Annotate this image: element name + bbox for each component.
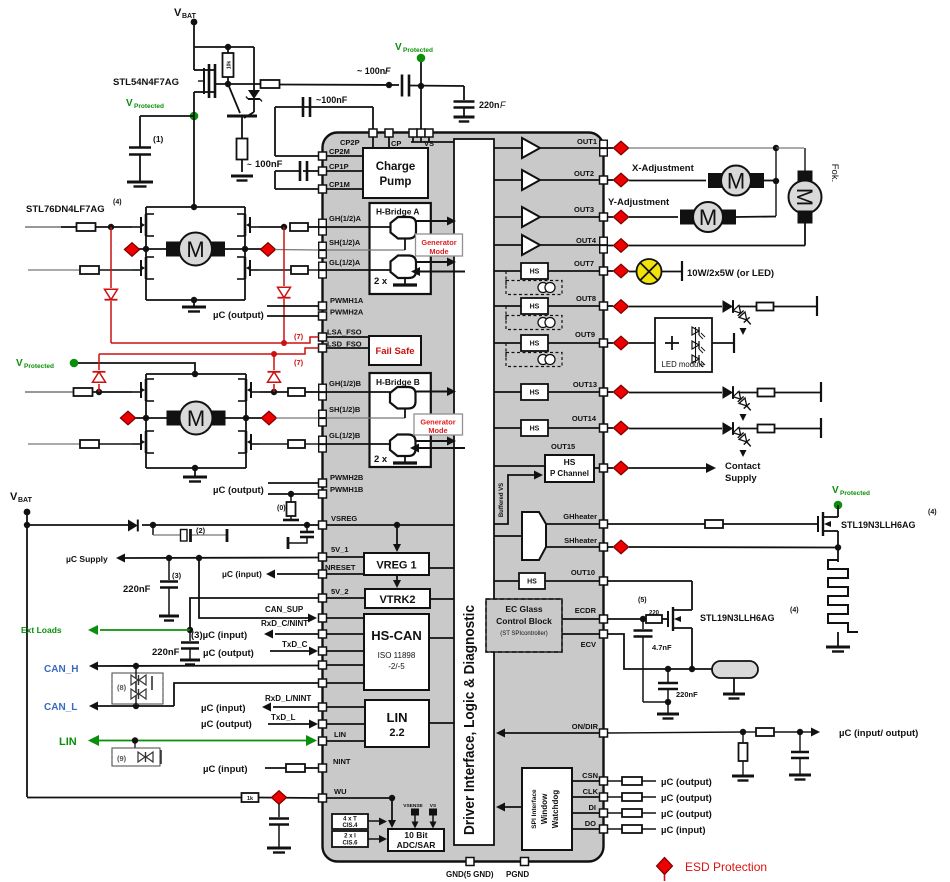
svg-text:HS: HS bbox=[530, 269, 540, 276]
svg-text:PWMH1B: PWMH1B bbox=[330, 485, 364, 494]
capacitor at VSREG pin bbox=[306, 525, 308, 531]
resistor gate A high-right bbox=[290, 223, 308, 231]
bridge A left vertical bbox=[145, 207, 147, 300]
wire SH(1/2)B sense to pin bbox=[276, 417, 319, 419]
CAN transient suppressor box (dashed) bbox=[112, 673, 163, 704]
bridge B right vertical bbox=[245, 374, 247, 468]
svg-text:Y-Adjustment: Y-Adjustment bbox=[608, 197, 670, 208]
lamp 10W (yellow) bbox=[637, 259, 662, 284]
MOSFET A low-left bbox=[145, 257, 148, 279]
wire VTRK2 to strip bbox=[430, 598, 454, 600]
svg-text:SH(1/2)B: SH(1/2)B bbox=[329, 405, 361, 414]
wire PWMH2A uC line bbox=[267, 315, 319, 317]
wire SH(1/2)A sense to pin bbox=[275, 249, 319, 252]
wire RxD_C uC input bbox=[275, 633, 319, 635]
resistor OUT13 bbox=[758, 389, 775, 397]
pin TxD_C bbox=[319, 647, 327, 655]
block HS-CAN bbox=[364, 614, 429, 690]
motor Fok (vertical) bbox=[804, 148, 806, 171]
arrow 4xT to ADC bbox=[368, 820, 381, 822]
svg-text:Fok.: Fok. bbox=[829, 164, 840, 182]
wire GH(1/2)B gate left bbox=[25, 391, 73, 393]
buffered VS feed line bbox=[494, 475, 536, 524]
wire OUT3 to Y motor bbox=[608, 216, 614, 218]
svg-text:Mode: Mode bbox=[428, 426, 447, 435]
resistor NINT bbox=[286, 764, 305, 772]
triangle buffer OUT2 bbox=[522, 170, 540, 190]
svg-text:OUT9: OUT9 bbox=[575, 330, 595, 339]
svg-text:OUT13: OUT13 bbox=[573, 380, 597, 389]
HS switch OUT14 bbox=[521, 420, 548, 436]
pin pair GH(1/2)B bbox=[319, 384, 327, 392]
svg-text:ESD Protection: ESD Protection bbox=[685, 860, 767, 874]
svg-text:PWMH2A: PWMH2A bbox=[330, 308, 364, 317]
wire strip to heater driver bbox=[494, 535, 522, 537]
MOSFET EC STL19N3LLH6AG bbox=[667, 611, 669, 627]
ESD diamond OUT3 bbox=[613, 210, 628, 224]
motor A bbox=[167, 242, 180, 256]
svg-text:Ext Loads: Ext Loads bbox=[21, 625, 62, 635]
ground for gate driver A2 bbox=[404, 278, 406, 284]
bridge B top rail bbox=[146, 373, 246, 375]
ESD diamond OUT4 bbox=[613, 239, 628, 253]
wire HS-CAN to strip bbox=[429, 637, 454, 639]
svg-text:Supply: Supply bbox=[725, 473, 757, 484]
wire CP1P to charge pump bbox=[327, 170, 364, 172]
arrow Contact Supply bbox=[608, 467, 614, 469]
block VTRK2 bbox=[365, 589, 430, 608]
svg-text:OUT1: OUT1 bbox=[577, 137, 597, 146]
svg-text:HS: HS bbox=[530, 304, 540, 311]
svg-text:µC (output): µC (output) bbox=[661, 809, 712, 820]
wire SH(1/2)A inside bbox=[327, 249, 406, 251]
wire WU from VBAT rail bbox=[27, 797, 242, 799]
svg-text:OUT4: OUT4 bbox=[576, 236, 597, 245]
svg-text:10k: 10k bbox=[227, 61, 233, 70]
resistor 1k WU bbox=[242, 793, 259, 802]
svg-text:TxD_L: TxD_L bbox=[271, 713, 296, 722]
resistor bias vertical bbox=[223, 53, 234, 77]
wire ECDR to gate bbox=[608, 618, 644, 620]
wire strip to OUT1 buffer bbox=[494, 147, 522, 149]
svg-text:VS: VS bbox=[430, 803, 437, 809]
pin pair SH(1/2)A bbox=[319, 242, 327, 250]
ground EC glass bbox=[723, 693, 745, 696]
red fail-safe line LSA bbox=[111, 342, 284, 344]
pin PWMH1A bbox=[319, 302, 327, 310]
pin PWMH2B bbox=[319, 479, 327, 487]
svg-text:(4): (4) bbox=[790, 607, 799, 614]
wire strip to HS OUT10 bbox=[494, 580, 519, 582]
svg-text:µC (output): µC (output) bbox=[213, 485, 264, 496]
svg-text:V: V bbox=[10, 491, 18, 503]
flying cap 100nF #1 bbox=[299, 161, 302, 181]
svg-text:M: M bbox=[727, 169, 745, 194]
wire PWMH1B uC line bbox=[268, 493, 319, 495]
svg-text:Charge: Charge bbox=[376, 161, 416, 173]
wire strip to OUT2 buffer bbox=[494, 179, 522, 181]
block H-Bridge B bbox=[370, 373, 431, 467]
pin WU bbox=[319, 794, 327, 802]
svg-text:µC (output): µC (output) bbox=[201, 719, 252, 730]
zener diode at bias bbox=[253, 47, 255, 90]
arrow driver B1 to logic strip bbox=[415, 391, 450, 393]
BJT fail-safe transistor bbox=[228, 84, 240, 113]
zener pair OUT8 bbox=[733, 305, 754, 327]
zener pair OUT14 bbox=[733, 427, 754, 449]
svg-text:EC Glass: EC Glass bbox=[505, 604, 543, 614]
svg-text:(4): (4) bbox=[928, 509, 937, 516]
resistor OUT8 bbox=[757, 303, 774, 311]
wire LIN pin to LIN block bbox=[327, 740, 366, 742]
wire GHheater to gate bbox=[608, 523, 706, 525]
svg-text:µC Supply: µC Supply bbox=[66, 554, 108, 564]
svg-text:SHheater: SHheater bbox=[564, 536, 597, 545]
wire LED module to terminator bbox=[712, 342, 734, 344]
pin DI bbox=[600, 809, 608, 817]
HS switch OUT13 bbox=[521, 384, 548, 400]
series capacitor 100nF (VS) bbox=[401, 75, 404, 97]
pin CP1M bbox=[319, 185, 327, 193]
arrow Ext Loads (green) bbox=[100, 629, 190, 631]
MOSFET A high-right bbox=[244, 214, 247, 236]
resistor gate A low-right bbox=[291, 266, 308, 274]
wire RxD_L pin to LIN block bbox=[327, 706, 366, 708]
svg-text:Contact: Contact bbox=[725, 461, 761, 472]
svg-text:(3): (3) bbox=[172, 571, 182, 580]
svg-text:CAN_L: CAN_L bbox=[44, 702, 77, 713]
box LED module bbox=[655, 318, 712, 372]
wire VSREG supply line bbox=[27, 524, 130, 526]
wire GL(1/2)B pin to driver bbox=[327, 443, 392, 445]
EC glass element (oval) bbox=[712, 661, 758, 678]
svg-text:µC (input): µC (input) bbox=[203, 764, 248, 775]
node VProtected left bbox=[190, 112, 199, 121]
svg-text:(5): (5) bbox=[638, 597, 647, 604]
wire 5V_1 to VREG1 bbox=[327, 556, 365, 558]
svg-text:OUT14: OUT14 bbox=[572, 414, 597, 423]
wire VBAT left rail bbox=[26, 512, 28, 797]
wire VProtected to filter cap (1) bbox=[140, 115, 194, 117]
pin OUT7 bbox=[600, 267, 608, 275]
pin OUT3 bbox=[600, 213, 608, 221]
red fail-safe vertical B-left bbox=[98, 384, 100, 392]
arrow WU to ADC bbox=[391, 798, 393, 822]
block Fail Safe bbox=[369, 336, 421, 365]
svg-text:Protected: Protected bbox=[134, 103, 164, 110]
pin CLK bbox=[600, 793, 608, 801]
pin OUT9 bbox=[600, 339, 608, 347]
red fail-safe line LSD bbox=[99, 353, 274, 355]
wire strip to HS OUT8 bbox=[494, 305, 521, 307]
svg-text:~: ~ bbox=[247, 160, 252, 169]
pin RxD_L bbox=[319, 703, 327, 711]
svg-text:CIS.4: CIS.4 bbox=[342, 823, 358, 829]
svg-text:RxD_C/NINT: RxD_C/NINT bbox=[261, 619, 308, 628]
wire SHheater bbox=[608, 546, 614, 548]
svg-text:CP2P: CP2P bbox=[340, 138, 360, 147]
wire PWMH1A uC line bbox=[267, 305, 319, 307]
MOSFET B high-right bbox=[245, 379, 248, 401]
terminator OUT8 bbox=[816, 296, 818, 316]
wire CAN_SUP pin to HS-CAN bbox=[327, 617, 365, 619]
svg-text:OUT7: OUT7 bbox=[574, 259, 594, 268]
wire strip to HS P-Channel bbox=[494, 465, 545, 467]
pin OUT15 bbox=[600, 464, 608, 472]
svg-text:F: F bbox=[385, 66, 391, 76]
wire OUT2 buffer to pin bbox=[540, 179, 600, 181]
svg-text:µC (output): µC (output) bbox=[661, 793, 712, 804]
svg-text:HS: HS bbox=[527, 579, 537, 586]
wire OUT8 chain bbox=[608, 305, 614, 307]
pin pair GL(1/2)B bbox=[319, 436, 327, 444]
svg-text:SPI Interface: SPI Interface bbox=[531, 789, 538, 829]
pin OUT2 bbox=[600, 176, 608, 184]
pin ON/DIR bbox=[600, 729, 608, 737]
wire TxD_L pin to LIN block bbox=[327, 723, 366, 725]
ground bridge A bbox=[193, 300, 195, 307]
wire OUT9 to LED module bbox=[608, 342, 614, 344]
svg-text:LED module: LED module bbox=[662, 360, 705, 369]
block 2xI CIS.6 bbox=[332, 831, 368, 847]
wire motor A right bbox=[224, 248, 245, 250]
wire VBAT branch to bias resistor bbox=[194, 46, 254, 48]
pin ECDR bbox=[600, 615, 608, 623]
wire HS OUT7 to pin bbox=[548, 270, 600, 272]
wire HS OUT13 to pin bbox=[548, 391, 600, 393]
ESD diamond OUT9 bbox=[613, 336, 628, 350]
ESD diamond OUT7 bbox=[613, 264, 628, 278]
svg-text:µC (output): µC (output) bbox=[203, 648, 254, 659]
wire WU inside IC bbox=[327, 797, 393, 799]
capacitor (1) bbox=[129, 146, 151, 149]
svg-text:Protected: Protected bbox=[24, 363, 54, 370]
svg-text:TxD_C: TxD_C bbox=[282, 640, 308, 649]
wire LSA_FSO to Fail Safe bbox=[327, 336, 370, 338]
wire GHheater bbox=[546, 523, 600, 525]
wire TxD_C uC output bbox=[270, 650, 312, 652]
wire VREG1 to strip bbox=[429, 567, 454, 569]
svg-text:M: M bbox=[792, 188, 817, 206]
capacitor 220nF (5V1) bbox=[168, 558, 170, 580]
svg-text:(8): (8) bbox=[117, 683, 127, 692]
svg-text:LIN: LIN bbox=[334, 730, 346, 739]
HS switch OUT8 bbox=[521, 298, 548, 314]
svg-text:CP1M: CP1M bbox=[329, 180, 350, 189]
red fail-safe vertical B-right bbox=[273, 384, 275, 392]
svg-text:NINT: NINT bbox=[333, 757, 351, 766]
pin OUT13 bbox=[600, 388, 608, 396]
svg-text:Generator: Generator bbox=[421, 238, 456, 247]
wire VBAT vertical bbox=[193, 22, 195, 70]
wire GH(1/2)A pin to driver bbox=[327, 226, 392, 228]
svg-text:1k: 1k bbox=[247, 796, 254, 802]
svg-text:GL(1/2)B: GL(1/2)B bbox=[329, 431, 361, 440]
svg-text:~100nF: ~100nF bbox=[316, 95, 348, 105]
wire NRESET to VREG1 bbox=[327, 573, 365, 575]
current source box OUT9 bbox=[505, 343, 507, 360]
flying cap 100nF #2 bbox=[302, 97, 305, 117]
wire OUT4 buffer to pin bbox=[540, 244, 600, 246]
resistor OUT14 bbox=[758, 425, 775, 433]
pin pair SH(1/2)B bbox=[319, 410, 327, 418]
pad VSENSE bbox=[412, 809, 419, 815]
resistor below BJT bbox=[237, 139, 248, 160]
svg-text:STL19N3LLH6AG: STL19N3LLH6AG bbox=[700, 613, 775, 623]
svg-text:CAN_H: CAN_H bbox=[44, 664, 78, 675]
MOSFET A high-left bbox=[145, 214, 148, 236]
ESD diamond SHheater bbox=[613, 540, 628, 554]
wire strip to HS OUT14 bbox=[494, 427, 521, 429]
svg-text:ECDR: ECDR bbox=[575, 606, 597, 615]
wire 5V_2 to VTRK2 bbox=[327, 597, 366, 599]
block VREG 1 bbox=[364, 553, 429, 575]
zener pair OUT13 bbox=[733, 391, 754, 413]
terminator OUT14 bbox=[820, 418, 822, 438]
svg-text:V: V bbox=[16, 358, 23, 369]
wire GH(1/2)B pin to driver bbox=[327, 391, 392, 393]
block 10 Bit ADC/SAR bbox=[388, 829, 444, 851]
svg-text:µC (input/ output): µC (input/ output) bbox=[839, 728, 918, 739]
svg-text:µC (output): µC (output) bbox=[213, 310, 264, 321]
arrow VS to ADC bbox=[432, 815, 434, 823]
svg-text:(7): (7) bbox=[294, 358, 304, 367]
svg-text:OUT10: OUT10 bbox=[571, 568, 595, 577]
svg-text:STL19N3LLH6AG: STL19N3LLH6AG bbox=[841, 520, 916, 530]
svg-text:(7): (7) bbox=[294, 332, 304, 341]
svg-text:2 x I: 2 x I bbox=[344, 834, 356, 840]
svg-text:WU: WU bbox=[334, 787, 347, 796]
wire strip to HS OUT13 bbox=[494, 391, 521, 393]
node VBAT top bbox=[191, 19, 198, 26]
svg-text:ON/DIR: ON/DIR bbox=[572, 722, 599, 731]
svg-text:220nF: 220nF bbox=[152, 647, 180, 658]
wire gate A high-right to pin bbox=[259, 226, 284, 228]
svg-text:PWMH2B: PWMH2B bbox=[330, 473, 364, 482]
resistor gate A high-left bbox=[77, 223, 96, 231]
wire VBAT rail down to bridge A bbox=[193, 92, 195, 207]
resistor gate B high-left bbox=[74, 388, 93, 396]
ESD diamond bridge A left bbox=[126, 248, 146, 250]
pin GHheater bbox=[600, 520, 608, 528]
arrow ON/DIR into strip bbox=[500, 732, 600, 734]
svg-text:-2/-5: -2/-5 bbox=[388, 662, 405, 671]
wire DI to SPI bbox=[572, 812, 600, 814]
svg-text:~ 100n: ~ 100n bbox=[357, 66, 385, 76]
triangle buffer OUT3 bbox=[522, 207, 540, 227]
wire motor A left bbox=[146, 248, 167, 250]
svg-text:LSA_FSO: LSA_FSO bbox=[327, 328, 362, 337]
svg-text:10 Bit: 10 Bit bbox=[404, 830, 427, 840]
arrow VSREG down to VREG1 bbox=[396, 525, 398, 546]
wire CP2M loop bbox=[274, 107, 276, 156]
diode OUT14 bbox=[723, 422, 734, 435]
pin OUT14 bbox=[600, 424, 608, 432]
transistor STL54N4F7AG (series MOSFET) bbox=[194, 69, 209, 71]
wire EC block to ECV pin bbox=[562, 633, 600, 635]
svg-text:Pump: Pump bbox=[380, 176, 412, 188]
red diode B-right bbox=[268, 372, 281, 382]
svg-text:Fail Safe: Fail Safe bbox=[375, 346, 414, 357]
pin 5V_2 bbox=[319, 594, 327, 602]
svg-text:GHheater: GHheater bbox=[563, 512, 597, 521]
pin NINT bbox=[319, 764, 327, 772]
wire HS OUT8 to pin bbox=[548, 305, 600, 307]
wire lamp to terminator bbox=[662, 271, 683, 273]
triangle buffer OUT4 bbox=[522, 235, 540, 255]
wire CSN to SPI bbox=[572, 780, 600, 782]
bridge B left vertical bbox=[145, 374, 147, 468]
feedback arrow into driver B2 bbox=[416, 447, 465, 449]
svg-text:OUT3: OUT3 bbox=[574, 205, 594, 214]
motor X-adjustment bbox=[709, 174, 722, 188]
red diode A-right bbox=[278, 287, 291, 297]
ESD Protection legend diamond bbox=[657, 858, 673, 875]
ESD diamond OUT15 bbox=[613, 461, 628, 475]
pin 5V_1 bbox=[319, 553, 327, 561]
wire CANL pin to HS-CAN bbox=[327, 682, 365, 684]
current source box OUT7 bbox=[505, 271, 507, 288]
svg-text:2 x: 2 x bbox=[374, 276, 388, 287]
LIN suppressor box (dashed) bbox=[134, 741, 136, 749]
svg-text:V: V bbox=[174, 7, 182, 19]
wire strip to HS OUT7 bbox=[494, 270, 521, 272]
svg-text:NRESET: NRESET bbox=[325, 563, 356, 572]
HS switch OUT9 bbox=[521, 335, 548, 351]
HS switch OUT7 bbox=[521, 263, 548, 279]
wire OUT14 chain bbox=[608, 427, 614, 429]
svg-text:CAN_SUP: CAN_SUP bbox=[265, 605, 304, 614]
ground 220nF ext loads bbox=[180, 659, 200, 662]
pin SHheater bbox=[600, 543, 608, 551]
wire LSD_FSO to Fail Safe bbox=[327, 347, 370, 349]
svg-text:OUT15: OUT15 bbox=[551, 442, 575, 451]
svg-text:OUT8: OUT8 bbox=[576, 294, 596, 303]
svg-text:STL76DN4LF7AG: STL76DN4LF7AG bbox=[26, 204, 105, 215]
HS switch OUT10 bbox=[519, 573, 545, 589]
ground bridge B bbox=[194, 468, 196, 477]
svg-text:Watchdog: Watchdog bbox=[551, 790, 560, 828]
svg-text:BAT: BAT bbox=[18, 497, 33, 504]
pin CSN bbox=[600, 777, 608, 785]
arrow uC Supply bbox=[116, 554, 125, 563]
MOSFET B low-right bbox=[245, 431, 248, 453]
resistor gate B low-left bbox=[80, 440, 99, 448]
wire OUT1 to motors bbox=[608, 147, 614, 149]
svg-text:GH(1/2)A: GH(1/2)A bbox=[329, 214, 362, 223]
red diode A-left bbox=[105, 289, 118, 299]
wire CP1M loop bbox=[274, 171, 276, 189]
white channel strip for Driver Interface column bbox=[454, 139, 494, 845]
wire Y motor to vertical bbox=[735, 216, 776, 219]
pad VS bbox=[430, 809, 437, 815]
svg-text:ECV: ECV bbox=[581, 640, 596, 649]
svg-text:µC (input): µC (input) bbox=[661, 825, 706, 836]
bridge A top rail bbox=[146, 206, 245, 208]
svg-text:DI: DI bbox=[589, 803, 597, 812]
gate driver A2 bbox=[391, 256, 417, 279]
triangle buffer OUT1 bbox=[522, 138, 540, 158]
wire CLK to SPI bbox=[572, 796, 600, 798]
svg-text:VSREG: VSREG bbox=[331, 514, 357, 523]
resistor ON/DIR bbox=[756, 728, 774, 736]
wire strip to HS OUT9 bbox=[494, 342, 521, 344]
svg-text:µC (input): µC (input) bbox=[201, 703, 246, 714]
svg-text:H-Bridge B: H-Bridge B bbox=[376, 377, 420, 387]
svg-text:M: M bbox=[699, 205, 717, 230]
ground WU cap bbox=[267, 847, 291, 850]
svg-text:2 x: 2 x bbox=[374, 454, 388, 465]
